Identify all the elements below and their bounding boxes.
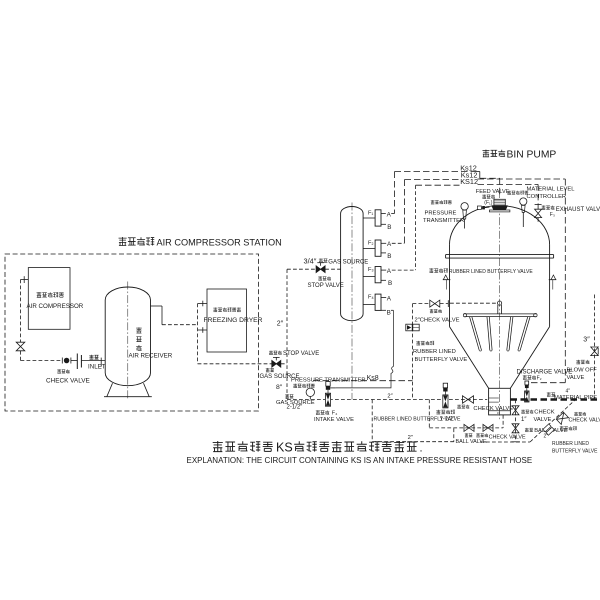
svg-text:2″: 2″ [408,435,413,441]
pilot valve F4 [375,294,381,310]
bin pump title 仓式泵 [482,150,489,157]
svg-text:CHECK: CHECK [534,410,554,416]
svg-text:RUBBER LINED BUTTERFLY VALVE: RUBBER LINED BUTTERFLY VALVE [374,416,461,422]
wire compressor down [20,280,22,343]
hose line KS12 no.3 : F3-A to exhaust valve [415,185,417,270]
dryer connection header [197,304,199,364]
svg-text:KS: KS [276,440,293,454]
svg-text:2″: 2″ [277,321,284,328]
svg-text:(F₁): (F₁) [484,200,492,206]
pilot valve F2 [375,240,381,256]
material level controller gauge [520,198,527,205]
svg-text:MATERIAL PIPE: MATERIAL PIPE [554,395,597,401]
pipe to dryer (dashed) [162,324,198,326]
svg-text:MATERIAL LEVEL: MATERIAL LEVEL [527,187,576,193]
1" drop from material pipe [515,400,517,442]
hose line Ks12 no.2 : F2-A to discharge valve [404,180,406,244]
svg-text:STOP VALVE: STOP VALVE [308,283,344,289]
label 气源 GAS SOURCE 2-1/2" [285,394,289,398]
svg-text:STOP VALVE: STOP VALVE [283,351,319,357]
svg-text:AIR RECEIVER: AIR RECEIVER [129,353,173,360]
svg-text:INLET: INLET [88,363,106,370]
svg-text:F₂: F₂ [537,375,542,381]
pipe tank outlet [151,305,163,307]
wire SV2 to riser [281,363,287,365]
manifold stub to F3 [363,276,375,278]
svg-text:CHECK VALVE: CHECK VALVE [46,378,90,385]
svg-text:2″: 2″ [544,433,549,439]
label 储气罐 vertical [136,327,142,333]
svg-text:EXHAUST VALVE: EXHAUST VALVE [556,207,600,213]
material pipe (thick) [511,398,600,401]
svg-text:F₄: F₄ [368,295,374,301]
svg-text:2-1/2″: 2-1/2″ [287,405,304,411]
svg-text:2″CHECK VALVE: 2″CHECK VALVE [415,317,460,323]
svg-text:2″: 2″ [387,394,392,400]
svg-text:F₃: F₃ [368,267,374,273]
bypass ball valve [464,424,474,431]
svg-text:DISCHARGE VALVE: DISCHARGE VALVE [517,369,573,375]
svg-text:AIR COMPRESSOR: AIR COMPRESSOR [27,303,84,310]
bypass riser from pipe [428,400,430,428]
label 进气阀 F4 INTAKE VALVE [316,410,320,414]
dryer port upper [198,303,207,305]
fluidizing branch butterfly valve [406,324,412,331]
air compressor station dashed boundary [5,254,259,411]
labels diagonal valves [574,412,578,416]
label 进气 [89,355,93,360]
freezing dryer box [207,289,247,352]
svg-text:GAS SOURCE: GAS SOURCE [328,260,368,266]
svg-text:B: B [388,280,392,287]
svg-text:3″: 3″ [583,336,590,343]
inlet flange [76,354,78,370]
hose line Ks12 no.1 : F1-A to feed valve [394,172,396,214]
manifold stub to F1 [363,217,375,219]
svg-text:.: . [420,442,423,454]
svg-text:VALVE: VALVE [534,417,552,423]
pressure gauge on pipe [306,388,314,396]
blow off valve line [594,295,596,400]
svg-text:B: B [387,253,391,260]
stop valve SV2 (8mm line) [273,356,280,358]
station title 空压机站 [119,237,127,245]
pipe into vessel to fluidizer [450,302,498,304]
intake valve F4 [326,382,330,387]
labels exhaust valve [542,205,546,209]
bin pump vessel dome [450,206,550,245]
manifold centerline [351,203,353,400]
labels butterfly valve [436,410,440,414]
svg-text:RUBBER LINED BUTTERFLY VALVE: RUBBER LINED BUTTERFLY VALVE [449,269,533,275]
diagonal branch from material pipe [530,400,576,443]
gas manifold vessel [341,207,364,321]
air compressor box [28,268,70,330]
labels 1" check valve [521,410,525,414]
fitting at compressor outlet [21,279,29,281]
svg-text:F₂: F₂ [368,241,374,247]
butterfly valve (2" line) [443,383,447,388]
F4 port A wire [381,297,386,299]
wire horizontal run to check valve [21,360,62,362]
svg-text:CHECK VALVE: CHECK VALVE [569,417,600,423]
label 逆止阀 [57,369,61,373]
svg-text:F₄: F₄ [332,411,338,417]
wire valve to horizontal run [20,351,22,361]
fluidizing riser 2 inch [412,304,414,400]
svg-text:INTAKE VALVE: INTAKE VALVE [314,417,354,423]
svg-text:CHECK VALVE: CHECK VALVE [489,435,526,441]
vessel support lugs [443,279,451,281]
fluidizing header [464,313,536,315]
F1 port B wire [381,223,386,225]
svg-text:TRANSMITTER: TRANSMITTER [423,218,464,224]
svg-text:BIN PUMP: BIN PUMP [507,149,557,160]
svg-text:BUTTERFLY VALVE: BUTTERFLY VALVE [552,448,598,454]
svg-text:RUBBER LINED: RUBBER LINED [413,349,456,355]
main 2" air pipe [287,399,487,401]
wire inlet to tank [81,360,105,362]
svg-text:EXPLANATION: THE CIRCUIT CONTA: EXPLANATION: THE CIRCUIT CONTAINING KS I… [187,456,533,465]
svg-text:PRESSURE: PRESSURE [425,210,457,216]
check valve (circle) [61,358,63,364]
vessel outlet box [489,388,511,415]
label 气源 GAS SOURCE 8" [266,368,270,372]
label 截止阀 STOP VALVE (3/4) [318,276,322,280]
svg-text:B: B [387,310,391,317]
labels ball valve (drop) [525,428,529,432]
svg-text:RUBBER LINED: RUBBER LINED [552,441,589,447]
F2 port B wire [381,252,386,254]
F4 port B wire + hose down to intake valve [381,309,386,311]
diagonal check valve [556,412,568,424]
dryer port lower [198,329,207,331]
F3 port B wire [381,279,386,281]
svg-text:F₁: F₁ [368,210,373,216]
svg-text:KS12: KS12 [460,177,478,186]
tank legs [107,383,113,397]
pipe SV3 to manifold [325,268,341,270]
pilot valve F3 [375,267,381,283]
svg-text:Ks8: Ks8 [367,375,379,382]
svg-text:1″: 1″ [521,417,527,423]
exhaust valve F3 [535,204,542,206]
svg-text:FREEZING DRYER: FREEZING DRYER [204,317,263,324]
fluidizer center pipe [497,305,499,314]
fluidizing nozzles [470,317,480,350]
vessel walls [449,245,451,327]
label mid-vessel butterfly [429,268,433,272]
svg-text:4″: 4″ [566,388,571,394]
note 说明 line [213,441,223,452]
bypass line left drop [371,400,373,442]
pipe 3/4 gas line [287,268,316,270]
label 料位变送器 [507,191,511,195]
wire check valve to inlet flange [71,360,77,362]
lower connector line to diagonal [480,441,530,443]
pipe dryer to station edge (8mm air) [198,363,272,365]
pilot valve F1 [375,210,381,226]
tank centerline [127,282,129,400]
feed valve assembly on dome [494,199,505,205]
vessel centerline [499,190,501,420]
hose Ks8 to pipe [313,380,413,382]
vessel cone [450,327,489,389]
svg-text:AIR COMPRESSOR STATION: AIR COMPRESSOR STATION [157,238,282,248]
labels blow off valve [576,360,580,364]
svg-text:CONTROLLER: CONTROLLER [527,194,567,200]
labels pressure transmitter [431,200,435,204]
label 截止阀 + STOP VALVE (lower) [269,351,273,355]
svg-text:8″: 8″ [276,384,283,391]
labels fluidizing butterfly [416,341,420,345]
manifold stub to F2 [363,247,375,249]
bypass check valve [483,424,493,431]
air compressor label 空气压缩机 [37,292,42,297]
diagonal butterfly valve [543,424,554,435]
F3 port A wire [381,269,386,271]
svg-text:FEED VALVE: FEED VALVE [476,189,510,195]
pressure transmitter on dome [461,203,468,210]
check valve on 2" pipe [463,396,474,404]
labels material pipe [547,392,551,396]
svg-text:F₃: F₃ [550,212,555,218]
2" check valve to vessel [413,303,430,305]
discharge valve F2 [525,381,529,385]
valve V1 (hourglass) [16,342,25,351]
svg-text:VALVE: VALVE [567,375,585,381]
label 冷冻式干燥机 [213,307,217,311]
manifold stub to F4 [363,304,375,306]
stop valve SV3 (3/4 line) [317,262,324,264]
svg-text:BUTTERFLY VALVE: BUTTERFLY VALVE [415,357,468,363]
F2 port A wire [381,242,386,244]
riser 2" up to 3/4 line, down to main pipe [286,269,288,399]
air receiver tank body [105,287,150,386]
F1 port A wire [381,213,386,215]
svg-text:B: B [387,224,391,231]
svg-text:3/4″: 3/4″ [304,256,317,265]
vessel girth flange band [446,254,554,256]
